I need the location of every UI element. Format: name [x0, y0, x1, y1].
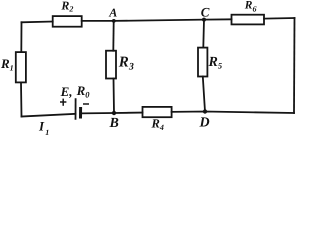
wire left vertical lower — [20, 82, 23, 116]
wire top-left horizontal — [22, 21, 53, 24]
resistor R5 — [198, 48, 207, 77]
battery short plate — [79, 107, 82, 119]
svg-text:R5: R5 — [208, 55, 223, 71]
label + (plus sign) — [60, 99, 66, 106]
wire A down to R3 — [112, 21, 114, 51]
svg-text:R2: R2 — [60, 0, 73, 14]
node C — [202, 18, 206, 22]
wire left vertical upper — [20, 22, 22, 52]
node A — [112, 19, 116, 23]
resistor R6 — [232, 15, 265, 25]
svg-text:A: A — [108, 6, 117, 20]
svg-text:D: D — [199, 115, 210, 130]
svg-text:R4: R4 — [151, 117, 164, 133]
resistor R3 — [106, 51, 116, 79]
wire R2 to A to C to R6 — [82, 19, 232, 21]
resistor R4 — [143, 107, 172, 117]
svg-text:B: B — [109, 116, 119, 131]
node B — [112, 111, 116, 115]
wire bottom right: corner to D to R4 — [172, 112, 294, 114]
label - (minus sign) — [83, 103, 89, 105]
wire R6 to top-right corner — [264, 17, 295, 20]
svg-text:R6: R6 — [244, 0, 257, 14]
svg-text:R0: R0 — [76, 83, 91, 99]
svg-text:C: C — [201, 4, 210, 19]
wire C down to R5 — [202, 20, 205, 48]
svg-text:R1: R1 — [0, 56, 14, 72]
wire battery to bottom-left corner — [22, 114, 76, 117]
wire R5 down to D — [203, 77, 205, 112]
resistor R2 — [53, 16, 82, 27]
wire right vertical — [293, 18, 296, 113]
wire R3 down to B — [113, 79, 116, 114]
battery E,R0 long plate — [75, 98, 77, 120]
wire R4 to B to battery — [82, 112, 143, 115]
svg-text:E,: E, — [60, 84, 73, 99]
svg-text:I1: I1 — [38, 118, 49, 137]
resistor R1 — [16, 52, 26, 82]
svg-text:R3: R3 — [118, 54, 134, 72]
node D — [203, 109, 207, 113]
